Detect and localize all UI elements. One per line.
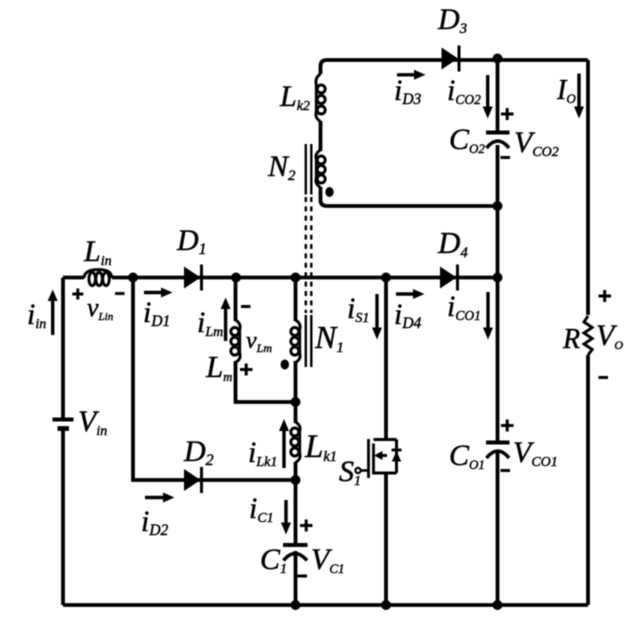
svg-text:Lk1: Lk1 [304,429,337,465]
capacitor CO1 [486,443,510,459]
wire output column [496,59,500,606]
arrow i_CO2 [483,75,493,119]
plus VO [599,290,612,302]
svg-text:R: R [562,324,580,355]
wire N2 bottom [321,187,498,206]
minus VCO1 [501,469,511,472]
arrow i_C1 [281,500,291,535]
wire S1 branch [384,278,388,606]
svg-text:iLk1: iLk1 [248,436,277,470]
wire N1 branch [294,278,298,606]
svg-text:iS1: iS1 [347,292,369,326]
wire right side upper [586,60,590,315]
plus minus signs [72,108,611,576]
svg-text:iD3: iD3 [394,74,422,108]
plus VC1 [300,520,313,532]
svg-text:Lk2: Lk2 [279,80,310,114]
wire left input top [61,278,65,418]
svg-text:iD4: iD4 [394,298,422,332]
arrow i_D1 [144,288,173,298]
svg-text:iCO1: iCO1 [447,290,481,323]
plus VCO2 [501,108,514,120]
svg-text:VO: VO [596,319,623,352]
svg-text:D2: D2 [183,435,214,469]
winding N1 [291,320,300,363]
inductor Lm [231,320,240,363]
inductor Lin [84,270,112,286]
svg-text:VCO2: VCO2 [514,126,559,160]
arrow i_CO1 [483,292,493,340]
arrow i_Lm [221,298,231,342]
svg-text:iD1: iD1 [143,296,170,330]
wire bottom bus [63,603,588,607]
wire D2 branch [133,278,296,481]
svg-text:N1: N1 [314,319,344,356]
diode D1 [184,265,202,291]
svg-text:N2: N2 [267,150,296,184]
svg-text:VCO1: VCO1 [513,436,558,470]
plus vLm [240,364,253,376]
svg-text:iLm: iLm [197,306,223,340]
dot N1 polarity [281,360,289,370]
svg-text:Lm: Lm [205,349,232,384]
minus VC1 [298,575,308,578]
svg-text:iD2: iD2 [141,505,169,539]
wire main bus [63,276,498,280]
mosfet S1 [355,439,401,478]
node junctions [128,54,503,611]
dot N2 polarity [325,187,333,197]
arrow i_Lk1 [279,419,289,468]
svg-text:D4: D4 [437,225,468,261]
svg-text:iin: iin [27,298,46,332]
svg-text:D3: D3 [437,3,467,37]
svg-text:vLm: vLm [246,328,272,355]
battery Vin [53,420,74,429]
arrow i_D3 [397,70,426,80]
svg-text:iC1: iC1 [249,492,274,526]
svg-text:IO: IO [556,75,576,106]
minus VO [599,376,609,379]
minus VCO2 [501,156,511,159]
svg-text:CO2: CO2 [449,123,485,156]
svg-text:Vin: Vin [78,405,107,439]
minus vLin [115,292,125,295]
resistor R [584,316,592,355]
winding N2 [316,150,325,188]
arrow i_in [48,290,58,336]
svg-text:D1: D1 [176,224,207,258]
svg-text:Lin: Lin [83,235,112,269]
inductor Lk1 [291,422,300,463]
minus vLm [241,305,251,308]
plus vLin [72,289,83,300]
wire top bus [321,60,589,74]
inductor Lk2 [316,74,325,122]
svg-text:iCO2: iCO2 [447,74,481,107]
wire right side lower [586,355,590,605]
svg-text:VC1: VC1 [311,543,345,576]
capacitor C1 [283,545,308,561]
wire N2 middle [319,121,323,151]
plus VCO1 [501,420,514,432]
diode D4 [440,265,458,291]
svg-text:vLin: vLin [87,293,114,323]
wire Lm branch [236,278,296,403]
svg-text:CO1: CO1 [449,439,485,472]
diode D2 [184,467,202,493]
arrow i_D4 [396,289,425,299]
diode D3 [442,46,460,72]
arrow i_S1 [372,294,382,340]
capacitor CO2 [486,133,510,149]
wire left input bottom [61,431,65,606]
arrow I_O [574,74,584,119]
transformer core [306,144,312,367]
arrow i_D2 [145,493,175,503]
